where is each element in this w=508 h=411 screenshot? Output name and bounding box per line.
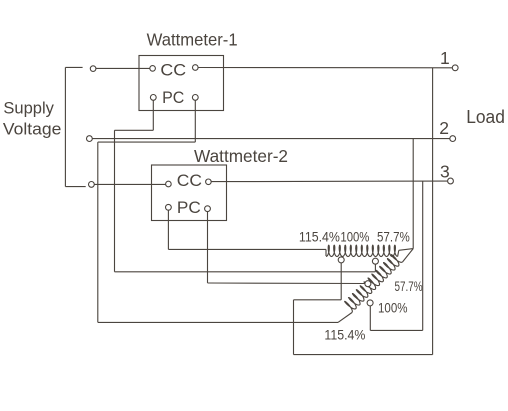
svg-text:Supply: Supply xyxy=(3,99,54,118)
svg-text:57.7%: 57.7% xyxy=(377,229,410,245)
svg-text:2: 2 xyxy=(439,118,449,138)
svg-text:115.4%: 115.4% xyxy=(324,327,365,343)
svg-text:57.7%: 57.7% xyxy=(395,278,423,294)
svg-text:3: 3 xyxy=(440,161,450,181)
svg-text:CC: CC xyxy=(177,171,202,190)
svg-text:1: 1 xyxy=(440,48,450,68)
svg-text:100%: 100% xyxy=(378,300,408,316)
svg-text:PC: PC xyxy=(177,198,201,217)
svg-text:115.4%: 115.4% xyxy=(299,229,340,245)
svg-text:Voltage: Voltage xyxy=(3,120,62,139)
svg-text:PC: PC xyxy=(162,88,184,107)
svg-text:Load: Load xyxy=(466,107,505,127)
svg-text:CC: CC xyxy=(160,60,186,79)
svg-text:Wattmeter-1: Wattmeter-1 xyxy=(147,30,238,50)
svg-text:100%: 100% xyxy=(340,228,369,244)
svg-text:Wattmeter-2: Wattmeter-2 xyxy=(194,146,288,166)
